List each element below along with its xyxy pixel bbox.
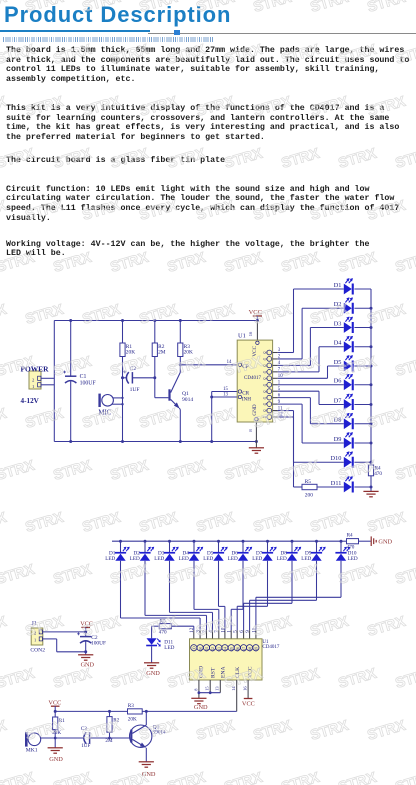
svg-text:STRX: STRX	[0, 458, 37, 484]
pin 9 of U1 (top)	[247, 645, 253, 651]
svg-text:STRX: STRX	[252, 302, 294, 328]
wire: J1 pin stubs	[43, 631, 86, 633]
svg-text:LED: LED	[301, 556, 311, 562]
pin 7 of U1	[267, 370, 272, 375]
ground (U1 pin 8)	[191, 698, 206, 703]
svg-text:STRX: STRX	[81, 510, 123, 536]
pin 4 of U1 (top)	[209, 645, 215, 651]
svg-text:STRX: STRX	[195, 510, 237, 536]
svg-text:STRX: STRX	[366, 198, 408, 224]
svg-text:STRX: STRX	[366, 718, 408, 744]
wire: U1 pin 3 to D1	[273, 352, 278, 354]
resistor R1 20K	[122, 321, 124, 344]
wire: D2 to U1 pin	[144, 561, 146, 616]
svg-text:GND: GND	[378, 538, 392, 545]
wire: D9 cathode to rail	[354, 442, 371, 444]
LED D7	[344, 399, 352, 410]
svg-text:STRX: STRX	[366, 94, 408, 120]
wire: U1 pin 12 to D11	[273, 416, 278, 418]
svg-text:STRX: STRX	[81, 0, 123, 16]
resistor R1 20K	[54, 711, 56, 717]
svg-text:Q5: Q5	[230, 647, 234, 652]
svg-text:STRX: STRX	[280, 42, 322, 68]
svg-text:STRX: STRX	[24, 0, 66, 16]
svg-text:VCC: VCC	[48, 699, 61, 706]
svg-text:2M: 2M	[158, 349, 166, 355]
svg-text:STRX: STRX	[195, 198, 237, 224]
svg-text:1: 1	[34, 638, 36, 643]
pin 1 of U1	[267, 382, 272, 387]
LED D10 (row)	[340, 540, 343, 543]
svg-text:STRX: STRX	[24, 718, 66, 744]
svg-text:STRX: STRX	[24, 614, 66, 640]
svg-text:Q1: Q1	[182, 391, 189, 397]
wire: left supply vertical	[53, 321, 55, 442]
svg-text:9: 9	[245, 630, 251, 633]
ground (LED rail)	[363, 491, 378, 496]
svg-text:STRX: STRX	[166, 562, 208, 588]
pin 6 of U1	[267, 395, 272, 400]
svg-text:STRX: STRX	[0, 614, 9, 640]
svg-text:STRX: STRX	[195, 718, 237, 744]
node: C2/R2 junction	[153, 376, 156, 379]
svg-text:STRX: STRX	[337, 146, 379, 172]
svg-text:Q1: Q1	[263, 357, 267, 361]
wire: D5 to U1 pin	[218, 561, 220, 607]
svg-text:GND: GND	[252, 404, 258, 415]
svg-text:STRX: STRX	[166, 250, 208, 276]
svg-text:STRX: STRX	[337, 42, 379, 68]
wire: D10 cathode to rail	[354, 461, 371, 463]
capacitor C3 1UF	[84, 732, 86, 743]
svg-text:CD4017: CD4017	[244, 376, 261, 381]
pin 5 of U1 (top)	[234, 645, 240, 651]
pin 11 of U1	[267, 408, 272, 413]
svg-text:STRX: STRX	[223, 42, 265, 68]
svg-text:STRX: STRX	[24, 94, 66, 120]
wire: D1 to U1 pin	[120, 561, 122, 618]
wire: D7 to U1 pin	[267, 561, 269, 607]
svg-text:GND: GND	[49, 756, 63, 763]
pin 10 of U1 (top)	[222, 645, 228, 651]
op-amp U1 CD4017 (IC body, schematic 2)	[190, 639, 263, 680]
svg-text:Q2: Q2	[211, 647, 215, 652]
LED D1 (row)	[119, 540, 122, 543]
svg-text:8: 8	[248, 429, 253, 432]
svg-text:STRX: STRX	[138, 406, 180, 432]
wire: D6 to U1 pin	[242, 561, 244, 610]
LED D6 (row)	[242, 540, 245, 543]
svg-text:Q8: Q8	[263, 402, 267, 406]
svg-text:STRX: STRX	[337, 770, 379, 785]
svg-text:STRX: STRX	[166, 666, 208, 692]
LED D4 (row)	[193, 540, 196, 543]
wire: U1 pin 8 to ground	[198, 680, 200, 698]
svg-text:STRX: STRX	[280, 250, 322, 276]
wire: D11 to ground	[151, 646, 153, 663]
wire: U1 pin 2 to D2	[273, 358, 278, 360]
svg-text:STRX: STRX	[394, 250, 416, 276]
pin 10 of U1	[267, 376, 272, 381]
svg-text:STRX: STRX	[109, 770, 151, 785]
svg-text:STRX: STRX	[366, 614, 408, 640]
wire: LED anode rail (top)	[112, 540, 341, 542]
svg-text:STRX: STRX	[280, 562, 322, 588]
svg-text:470: 470	[347, 544, 355, 550]
pin 2 of U1 (top)	[203, 645, 209, 651]
svg-text:STRX: STRX	[280, 666, 322, 692]
svg-text:LED: LED	[252, 556, 262, 562]
svg-text:LED: LED	[130, 556, 140, 562]
LED D9	[344, 438, 352, 449]
svg-text:STRX: STRX	[109, 562, 151, 588]
resistor R3 20K	[128, 709, 143, 714]
svg-text:STRX: STRX	[337, 562, 379, 588]
LED D4	[344, 341, 352, 352]
svg-text:U1: U1	[238, 332, 246, 339]
svg-text:LED: LED	[348, 556, 358, 562]
svg-text:Q8: Q8	[248, 647, 252, 652]
svg-text:STRX: STRX	[280, 354, 322, 380]
svg-text:12: 12	[189, 627, 195, 633]
svg-text:STRX: STRX	[81, 406, 123, 432]
pin 7 of U1 (top)	[216, 645, 222, 651]
svg-text:STRX: STRX	[52, 458, 94, 484]
wire: U1 pin 7 to D4	[273, 371, 278, 373]
wire: D1 cathode to rail	[354, 288, 371, 290]
svg-text:STRX: STRX	[0, 562, 37, 588]
svg-text:STRX: STRX	[0, 0, 9, 16]
svg-text:STRX: STRX	[309, 94, 351, 120]
svg-text:5: 5	[233, 630, 239, 633]
LED D2	[344, 303, 352, 314]
svg-text:STRX: STRX	[309, 510, 351, 536]
svg-text:STRX: STRX	[366, 510, 408, 536]
svg-text:STRX: STRX	[109, 146, 151, 172]
svg-text:20K: 20K	[126, 349, 135, 355]
svg-text:STRX: STRX	[0, 94, 9, 120]
svg-text:15: 15	[205, 686, 210, 691]
svg-text:STRX: STRX	[0, 146, 37, 172]
LED D6	[344, 379, 352, 390]
svg-text:STRX: STRX	[223, 770, 265, 785]
wire: R5 to D11	[152, 625, 160, 627]
svg-text:Q2: Q2	[263, 364, 267, 368]
LED D5	[344, 361, 352, 372]
wire: D8 to U1 pin	[291, 561, 293, 604]
svg-text:2M: 2M	[105, 738, 113, 744]
svg-text:LED: LED	[105, 556, 115, 562]
svg-text:STRX: STRX	[81, 614, 123, 640]
wire: POWER pin stubs	[41, 377, 54, 379]
svg-text:Q6: Q6	[236, 647, 240, 652]
transistor Q1 S9014	[130, 725, 152, 747]
pin 3 of U1	[267, 350, 272, 355]
svg-text:4-12V: 4-12V	[21, 397, 40, 405]
svg-text:STRX: STRX	[366, 0, 408, 16]
svg-text:CO: CO	[193, 646, 197, 651]
svg-text:STRX: STRX	[138, 198, 180, 224]
wire: CP pin line 14	[180, 364, 237, 366]
svg-text:Q7: Q7	[242, 647, 246, 652]
svg-text:16: 16	[248, 331, 253, 336]
svg-text:STRX: STRX	[24, 510, 66, 536]
svg-text:STRX: STRX	[394, 666, 416, 692]
svg-text:D4: D4	[334, 340, 343, 347]
svg-text:STRX: STRX	[52, 250, 94, 276]
svg-text:CON2: CON2	[30, 647, 45, 653]
LED D11	[344, 482, 352, 493]
wire: U1 ground pin 8	[255, 422, 257, 448]
svg-text:STRX: STRX	[0, 770, 37, 785]
pin 6 of U1 (top)	[241, 645, 247, 651]
svg-text:STRX: STRX	[81, 718, 123, 744]
svg-text:STRX: STRX	[138, 0, 180, 16]
svg-text:STRX: STRX	[138, 302, 180, 328]
svg-text:Q7: Q7	[263, 396, 267, 400]
svg-text:Q4: Q4	[224, 647, 228, 652]
svg-text:100UF: 100UF	[91, 641, 106, 647]
wire: mic to C3	[41, 737, 85, 739]
svg-text:STRX: STRX	[223, 458, 265, 484]
svg-text:STRX: STRX	[309, 614, 351, 640]
svg-text:R5: R5	[305, 479, 312, 485]
ground (mic bias)	[54, 738, 56, 748]
svg-text:STRX: STRX	[138, 718, 180, 744]
svg-text:STRX: STRX	[0, 718, 9, 744]
resistor R5 700	[302, 484, 317, 489]
svg-text:MK1: MK1	[26, 747, 38, 753]
op-amp U1 CD4017 (IC body)	[237, 340, 272, 422]
svg-text:STRX: STRX	[166, 42, 208, 68]
svg-text:STRX: STRX	[309, 198, 351, 224]
wire: D11 cathode to rail	[354, 486, 371, 488]
wire: U1 pin 4 to D3	[273, 364, 278, 366]
svg-text:STRX: STRX	[252, 614, 294, 640]
svg-text:RST: RST	[211, 667, 217, 678]
svg-text:LED: LED	[179, 556, 189, 562]
svg-text:STRX: STRX	[366, 406, 408, 432]
wire: U1 pin 10 to D5	[273, 377, 278, 379]
svg-text:VCC: VCC	[242, 701, 255, 708]
svg-text:STRX: STRX	[195, 614, 237, 640]
wire: U1 pin 5 to D7	[273, 390, 278, 392]
svg-text:STRX: STRX	[394, 770, 416, 785]
wire: D3 to U1 pin	[169, 561, 171, 613]
wire: CR/INH ground drop	[211, 392, 213, 442]
svg-text:D10: D10	[331, 455, 342, 462]
LED D5 (row)	[217, 540, 220, 543]
svg-text:LED: LED	[203, 556, 213, 562]
svg-text:STRX: STRX	[252, 0, 294, 16]
svg-text:STRX: STRX	[138, 94, 180, 120]
svg-text:8: 8	[193, 688, 198, 691]
svg-text:STRX: STRX	[252, 94, 294, 120]
svg-text:STRX: STRX	[252, 198, 294, 224]
resistor R4 470	[368, 465, 373, 476]
ground (C2)	[78, 655, 93, 660]
svg-text:R3: R3	[128, 703, 134, 709]
resistor R3 20K	[179, 321, 181, 344]
wire: U1 pin 6 to D8	[273, 397, 278, 399]
svg-text:STRX: STRX	[109, 458, 151, 484]
pin 11 of U1 (top)	[253, 645, 259, 651]
svg-text:STRX: STRX	[337, 250, 379, 276]
ground (Q1 emitter)	[139, 762, 154, 767]
svg-text:STRX: STRX	[309, 718, 351, 744]
svg-text:GND: GND	[194, 704, 208, 711]
svg-text:STRX: STRX	[223, 562, 265, 588]
wire: U1 pin 1 to D6	[273, 384, 278, 386]
svg-text:STRX: STRX	[52, 146, 94, 172]
svg-text:D9: D9	[334, 436, 342, 443]
wire: D4 to U1 pin	[193, 561, 195, 610]
wire: pin 14 clock	[236, 680, 238, 711]
svg-text:STRX: STRX	[252, 510, 294, 536]
wire: U1 pin 11 to D10	[273, 410, 278, 412]
svg-text:STRX: STRX	[109, 354, 151, 380]
resistor R2 2M	[154, 321, 156, 344]
svg-text:20K: 20K	[128, 717, 137, 723]
svg-text:STRX: STRX	[81, 94, 123, 120]
svg-text:STRX: STRX	[0, 302, 9, 328]
pin 1 of U1 (top)	[228, 645, 234, 651]
LED D11	[151, 626, 153, 638]
svg-text:Q9: Q9	[255, 647, 259, 652]
microphone MK1	[25, 732, 28, 746]
svg-text:Q3: Q3	[263, 370, 267, 374]
ground (U1 pin 8)	[249, 448, 264, 453]
wire: D6 cathode to rail	[354, 384, 371, 386]
svg-text:STRX: STRX	[0, 406, 9, 432]
svg-text:STRX: STRX	[394, 562, 416, 588]
wire: D10 to U1 pin	[340, 561, 342, 598]
wire: D2 cathode to rail	[354, 307, 371, 309]
svg-text:STRX: STRX	[394, 42, 416, 68]
wire: ground bottom rail	[54, 441, 256, 443]
pin 5 of U1	[267, 389, 272, 394]
LED D10	[344, 457, 352, 468]
svg-text:Q0: Q0	[263, 351, 267, 355]
wire: D5 cathode to rail	[354, 365, 371, 367]
svg-text:STRX: STRX	[24, 406, 66, 432]
svg-text:20K: 20K	[184, 349, 193, 355]
wire: R5 to pin 12	[171, 625, 194, 627]
svg-text:Q0: Q0	[199, 647, 203, 652]
wire: INH pin line 13	[212, 396, 238, 398]
wire: D3 cathode to rail	[354, 327, 371, 329]
svg-text:STRX: STRX	[280, 770, 322, 785]
svg-text:STRX: STRX	[0, 666, 37, 692]
pin 3 of U1 (top)	[197, 645, 203, 651]
svg-text:100UF: 100UF	[80, 380, 97, 386]
pin 2 of U1	[267, 357, 272, 362]
svg-text:STRX: STRX	[109, 42, 151, 68]
LED D8 (row)	[291, 540, 294, 543]
LED D3	[344, 322, 352, 333]
LED D7 (row)	[266, 540, 269, 543]
svg-text:D1: D1	[334, 282, 342, 289]
pin 4 of U1	[267, 363, 272, 368]
svg-text:STRX: STRX	[337, 458, 379, 484]
svg-text:STRX: STRX	[138, 510, 180, 536]
microphone MIC	[98, 394, 100, 407]
wire: preamp supply rail	[55, 710, 127, 712]
svg-text:STRX: STRX	[166, 146, 208, 172]
svg-text:Q4: Q4	[263, 376, 267, 380]
svg-text:STRX: STRX	[223, 250, 265, 276]
wire: VCC top rail	[54, 320, 257, 322]
svg-text:STRX: STRX	[52, 770, 94, 785]
svg-text:LED: LED	[228, 556, 238, 562]
resistor R4 470	[341, 540, 347, 542]
svg-text:STRX: STRX	[195, 406, 237, 432]
svg-text:C1: C1	[80, 374, 87, 380]
svg-text:STRX: STRX	[52, 666, 94, 692]
wire: base wire	[155, 397, 169, 399]
svg-text:STRX: STRX	[166, 770, 208, 785]
svg-text:STRX: STRX	[0, 198, 9, 224]
svg-text:STRX: STRX	[195, 0, 237, 16]
node: R1/C2 junction	[121, 376, 124, 379]
pin 12 of U1	[267, 415, 272, 420]
svg-text:13: 13	[223, 392, 228, 397]
svg-text:1UF: 1UF	[130, 387, 140, 393]
wire: D9 to U1 pin	[316, 561, 318, 601]
transistor Q1 9014	[168, 389, 170, 400]
svg-text:STRX: STRX	[81, 302, 123, 328]
svg-text:INH: INH	[242, 396, 251, 402]
wire: MIC stubs	[113, 397, 123, 399]
svg-text:STRX: STRX	[166, 458, 208, 484]
svg-text:STRX: STRX	[223, 146, 265, 172]
svg-text:LED: LED	[154, 556, 164, 562]
resistor R2 2M	[109, 711, 111, 716]
LED D8	[344, 418, 352, 429]
svg-text:STRX: STRX	[394, 354, 416, 380]
svg-text:STRX: STRX	[109, 666, 151, 692]
capacitor C2 1UF	[123, 377, 128, 379]
svg-text:STRX: STRX	[252, 718, 294, 744]
svg-text:STRX: STRX	[195, 94, 237, 120]
LED D3 (row)	[168, 540, 171, 543]
svg-text:STRX: STRX	[24, 198, 66, 224]
svg-text:STRX: STRX	[109, 250, 151, 276]
LED D2 (row)	[144, 540, 147, 543]
wire: LED common cathode rail	[370, 289, 372, 465]
svg-text:STRX: STRX	[0, 42, 37, 68]
ground (D11)	[144, 663, 159, 668]
svg-text:STRX: STRX	[337, 666, 379, 692]
ground (after R4, sideways)	[371, 536, 376, 546]
svg-text:CD4017: CD4017	[262, 645, 279, 650]
svg-text:LED: LED	[164, 645, 174, 651]
svg-text:STRX: STRX	[0, 510, 9, 536]
capacitor C1 100UF	[70, 321, 72, 377]
svg-text:15: 15	[223, 387, 228, 392]
svg-text:STRX: STRX	[24, 302, 66, 328]
svg-text:Q6: Q6	[263, 389, 267, 393]
wire: CR pin line 15	[212, 391, 238, 393]
svg-text:STRX: STRX	[280, 458, 322, 484]
pin 9 of U1	[267, 402, 272, 407]
capacitor C2 100UF	[80, 636, 91, 638]
pin 12 of U1 (top)	[191, 645, 197, 651]
svg-text:D7: D7	[334, 397, 342, 404]
svg-text:200: 200	[305, 492, 313, 498]
wire: D7 cathode to rail	[354, 404, 371, 406]
resistor R5 470	[159, 624, 171, 629]
